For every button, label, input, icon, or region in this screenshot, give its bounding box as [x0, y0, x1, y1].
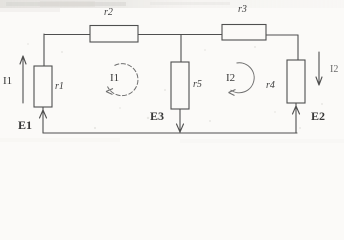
- arrow E2 up: [293, 106, 300, 114]
- label r3: [238, 4, 247, 15]
- wire top-left vertical: [43, 34, 45, 66]
- svg-text:r4: r4: [266, 80, 275, 91]
- wire top-right vertical: [297, 35, 299, 60]
- label E1: [18, 118, 32, 132]
- paper speckle: [0, 43, 344, 143]
- label r5: [193, 79, 202, 90]
- wire top segment left: [44, 34, 90, 36]
- resistor R4: [287, 60, 305, 103]
- svg-text:I2: I2: [330, 64, 338, 75]
- label r4: [266, 80, 275, 91]
- label E3: [150, 109, 164, 123]
- svg-text:I1: I1: [110, 72, 119, 84]
- svg-text:r1: r1: [55, 81, 64, 92]
- wire R5 bottom lead: [179, 109, 181, 132]
- resistor R3: [222, 25, 266, 41]
- svg-text:E2: E2: [311, 109, 325, 123]
- wire bottom: [43, 132, 297, 134]
- scan noise band top: [0, 0, 344, 12]
- svg-text:I2: I2: [226, 72, 235, 84]
- wire R4 bottom lead: [295, 103, 297, 133]
- label I2 branch current: [330, 64, 338, 75]
- loop arrow I2: [229, 63, 255, 96]
- wire top segment right: [266, 34, 298, 36]
- label r1: [55, 81, 64, 92]
- resistor R1: [34, 66, 52, 107]
- wire R1 bottom lead: [42, 107, 44, 133]
- resistor R2: [90, 26, 138, 43]
- label r2: [104, 7, 113, 18]
- arrow E3 down: [177, 124, 184, 132]
- arrow current I2 right: [316, 52, 322, 85]
- wire R5 top lead: [180, 35, 182, 63]
- loop arrow I1: [106, 64, 138, 96]
- svg-text:E1: E1: [18, 118, 32, 132]
- svg-text:I1: I1: [3, 75, 12, 87]
- resistor R5: [171, 62, 189, 109]
- label E2: [311, 109, 325, 123]
- svg-text:r5: r5: [193, 79, 202, 90]
- label I1 branch current: [3, 75, 12, 87]
- svg-text:r2: r2: [104, 7, 113, 18]
- label I1 loop current: [110, 72, 119, 84]
- svg-text:r3: r3: [238, 4, 247, 15]
- arrow current I1 left: [20, 56, 26, 103]
- wire top segment middle: [138, 34, 222, 36]
- label I2 loop current: [226, 72, 235, 84]
- arrow E1 up: [40, 110, 47, 118]
- svg-text:E3: E3: [150, 109, 164, 123]
